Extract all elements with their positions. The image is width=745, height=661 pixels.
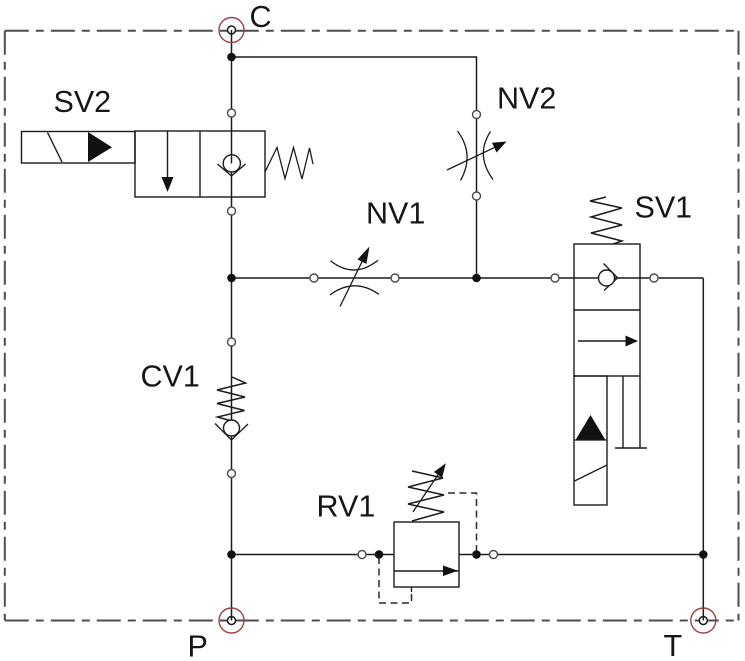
node left of SV1 bbox=[551, 274, 559, 282]
svg-text:C: C bbox=[250, 0, 272, 34]
needle valve NV1 : adjust arrow bbox=[340, 262, 362, 307]
solenoid valve SV1 : top spring bbox=[590, 197, 622, 244]
junction bottom line right / T branch bbox=[699, 550, 708, 559]
node right of NV1 bbox=[391, 274, 399, 282]
svg-text:NV2: NV2 bbox=[497, 81, 556, 115]
solenoid valve SV1 : position 2 flow arrow (right) bbox=[578, 340, 628, 342]
check valve CV1 : seat bbox=[215, 424, 248, 441]
port T bbox=[691, 608, 716, 633]
wire: middle horizontal line through NV1 and SV1 bbox=[232, 277, 704, 279]
relief valve RV1 : flow arrow bbox=[394, 570, 459, 572]
solenoid valve SV1 : position 1 check ball bbox=[599, 270, 615, 286]
relief valve RV1 : pilot line (left, dashed) bbox=[379, 557, 412, 603]
port P bbox=[219, 608, 244, 633]
node above CV1 bbox=[228, 338, 236, 346]
wire: top branch from C junction to NV2 bbox=[232, 57, 477, 278]
solenoid valve SV1 : blocked port lines bbox=[615, 376, 647, 448]
node above NV2 bbox=[473, 111, 481, 119]
node right of SV1 bbox=[650, 274, 658, 282]
relief valve RV1 : spring adjust arrow bbox=[413, 475, 438, 512]
node right of RV1 bbox=[490, 551, 498, 559]
junction RV1 inlet bbox=[375, 550, 384, 559]
node left of RV1 bbox=[358, 551, 366, 559]
solenoid valve SV2 : position 2 check seat bbox=[218, 164, 246, 176]
needle valve NV2 : venturi arcs bbox=[458, 131, 494, 181]
check valve CV1 : spring bbox=[217, 377, 246, 421]
relief valve RV1 : drain tick bbox=[411, 587, 413, 592]
svg-text:NV1: NV1 bbox=[366, 197, 425, 231]
solenoid valve SV1 : coil diagonal bbox=[575, 465, 608, 481]
solenoid valve SV1 : coil arrow (up) bbox=[576, 415, 606, 440]
node below NV2 bbox=[473, 192, 481, 200]
svg-text:T: T bbox=[664, 629, 683, 661]
svg-text:SV1: SV1 bbox=[635, 190, 693, 224]
wire: C port down to P port (left vertical main line) bbox=[231, 30, 233, 621]
junction middle line left bbox=[227, 274, 236, 283]
solenoid valve SV1 : position 1 check seat bbox=[604, 264, 618, 291]
solenoid valve SV1 : valve body (2 positions) bbox=[574, 244, 640, 376]
solenoid valve SV2 : valve body (2 positions) bbox=[135, 131, 265, 197]
node left of NV1 bbox=[310, 274, 318, 282]
wire: right vertical line from SV1 outlet down to T bbox=[702, 278, 704, 621]
solenoid valve SV2 : solenoid coil box bbox=[22, 132, 136, 164]
solenoid valve SV2 : return spring bbox=[265, 148, 313, 180]
junction at C branch bbox=[227, 53, 236, 62]
junction RV1 outlet bbox=[472, 550, 481, 559]
node below SV2 bbox=[228, 207, 236, 215]
wire: bottom horizontal line from P branch through RV1 to T branch bbox=[232, 554, 704, 556]
relief valve RV1 : pilot line (right, dashed) bbox=[448, 493, 477, 552]
node below CV1 bbox=[228, 470, 236, 478]
junction NV2 / middle line bbox=[472, 274, 481, 283]
solenoid valve SV2 : coil arrow bbox=[88, 132, 112, 162]
solenoid valve SV2 : position 1 flow arrow (down) bbox=[167, 131, 169, 182]
svg-text:SV2: SV2 bbox=[54, 85, 112, 119]
node above SV2 bbox=[228, 109, 236, 117]
relief valve RV1 : adjustable spring bbox=[408, 471, 444, 521]
junction bottom line left bbox=[227, 550, 236, 559]
port C bbox=[219, 18, 244, 43]
check valve CV1 : ball bbox=[224, 420, 240, 436]
solenoid valve SV2 : position 2 check ball bbox=[223, 155, 240, 172]
relief valve RV1 : body box bbox=[394, 522, 459, 587]
svg-text:RV1: RV1 bbox=[317, 490, 376, 524]
needle valve NV2 : adjust arrow bbox=[447, 148, 494, 170]
needle valve NV1 : venturi arcs bbox=[330, 260, 379, 295]
svg-text:CV1: CV1 bbox=[141, 359, 200, 393]
solenoid valve SV1 : solenoid coil box bbox=[574, 376, 607, 505]
svg-text:P: P bbox=[188, 629, 208, 661]
